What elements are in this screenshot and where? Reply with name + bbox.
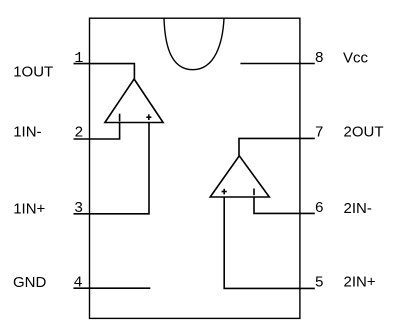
svg-text:1IN+: 1IN+ — [13, 200, 45, 217]
svg-text:2: 2 — [74, 125, 83, 142]
svg-text:3: 3 — [74, 200, 83, 217]
svg-text:1IN-: 1IN- — [13, 123, 41, 140]
svg-text:1: 1 — [74, 50, 83, 67]
svg-text:2IN-: 2IN- — [344, 200, 372, 217]
svg-text:2OUT: 2OUT — [344, 123, 384, 140]
svg-text:4: 4 — [73, 274, 82, 291]
svg-text:6: 6 — [315, 200, 324, 217]
svg-text:2IN+: 2IN+ — [344, 274, 376, 291]
svg-text:GND: GND — [13, 274, 47, 291]
svg-text:5: 5 — [315, 274, 324, 291]
svg-text:7: 7 — [315, 125, 324, 142]
svg-text:8: 8 — [315, 50, 324, 67]
svg-text:Vcc: Vcc — [343, 49, 369, 66]
svg-text:1OUT: 1OUT — [13, 63, 53, 80]
